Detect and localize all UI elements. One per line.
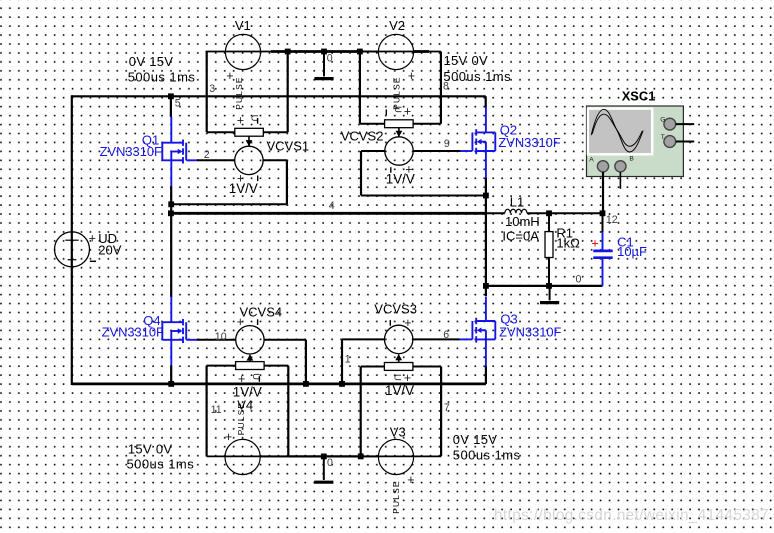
ground bottom (net 0) bbox=[323, 456, 325, 480]
junction R1 bottom / ground bbox=[546, 283, 552, 289]
svg-text:6: 6 bbox=[443, 329, 449, 341]
svg-text:VCVS3: VCVS3 bbox=[374, 301, 417, 316]
transistor Q4 bbox=[170, 297, 172, 323]
wire Q1 drain from node 5 bbox=[170, 96, 172, 117]
VCVS4 output circle bbox=[236, 326, 264, 354]
wire Q1 source / Q4 drain vertical bbox=[170, 186, 172, 297]
wire top rail from UD+ to Q1/Q2 drains bbox=[72, 95, 486, 97]
svg-text:500us 1ms: 500us 1ms bbox=[127, 457, 195, 472]
instrument XSC1 box bbox=[587, 106, 684, 177]
wire V2 left branch down to VCVS2 input bbox=[359, 52, 361, 124]
junction VCVS3 out at rail bbox=[339, 381, 345, 387]
svg-text:+: + bbox=[226, 69, 233, 83]
junction VCVS2 return at Q2 source bbox=[483, 193, 489, 199]
wire V2 right branch down to VCVS2 input right bbox=[440, 52, 442, 124]
VCVS2 output circle bbox=[385, 137, 413, 165]
wire VCVS2 out to Q2 source bbox=[361, 150, 385, 152]
svg-text:+: + bbox=[237, 114, 244, 128]
wire to V2 left pin bbox=[360, 51, 378, 53]
resistor R1 bbox=[548, 213, 550, 231]
transistor Q2 bbox=[485, 107, 487, 132]
wire V1 left branch down to VCVS1 input bbox=[206, 52, 208, 133]
svg-text:10: 10 bbox=[215, 331, 227, 343]
wire net0 from Q2 source midpoint to C1 bottom bbox=[486, 285, 603, 287]
wire Q4 source to rail bbox=[170, 366, 172, 384]
svg-text:+: + bbox=[225, 430, 232, 444]
wire 9: VCVS2 to Q2 gate bbox=[413, 150, 460, 152]
junction V2 left branch bbox=[357, 49, 363, 55]
svg-text:12: 12 bbox=[606, 214, 618, 226]
svg-text:+: + bbox=[407, 473, 414, 487]
wire 2: Q1 gate to VCVS1 bbox=[197, 159, 235, 161]
XSC1 terminal A bbox=[597, 161, 608, 172]
svg-text:+: + bbox=[404, 316, 411, 330]
VCVS2 output marks bbox=[390, 167, 392, 173]
wire VCVS3 input left loop to V3 bbox=[361, 366, 385, 368]
svg-text:XSC1: XSC1 bbox=[622, 88, 656, 103]
svg-text:ZVN3310F: ZVN3310F bbox=[498, 135, 560, 150]
XSC1 waveform B bbox=[592, 114, 642, 146]
svg-text:T: T bbox=[661, 134, 665, 141]
svg-text:9: 9 bbox=[444, 138, 450, 150]
svg-text:https://blog.csdn.net/weixin_4: https://blog.csdn.net/weixin_41445387 bbox=[494, 507, 769, 524]
svg-text:VCVS1: VCVS1 bbox=[267, 139, 310, 154]
svg-text:1kΩ: 1kΩ bbox=[556, 236, 580, 251]
junction VCVS4 out at rail bbox=[303, 381, 309, 387]
wire V2 right pin bbox=[360, 51, 441, 53]
svg-text:7: 7 bbox=[444, 402, 450, 414]
wire mid rail net 4 to L1 bbox=[171, 212, 486, 215]
UD minus mark bbox=[90, 260, 96, 262]
svg-text:ZVN3310F: ZVN3310F bbox=[102, 325, 164, 340]
transistor Q3 bbox=[485, 297, 487, 322]
wire left rail (UD branch) bbox=[71, 95, 73, 385]
junction V3 left branch bbox=[358, 454, 364, 460]
transistor Q1 bbox=[170, 117, 172, 143]
ground top (net 0) bbox=[323, 52, 325, 77]
svg-text:V2: V2 bbox=[389, 18, 405, 33]
DC source UD bbox=[55, 232, 90, 267]
svg-text:4: 4 bbox=[329, 200, 335, 212]
wire Q2 source / Q3 drain vertical bbox=[485, 178, 487, 297]
svg-text:20V: 20V bbox=[98, 242, 121, 257]
junction R1 top bbox=[546, 210, 552, 216]
svg-text:V1: V1 bbox=[235, 18, 251, 33]
VCVS2 sense resistor box bbox=[385, 120, 414, 128]
VCVS1 arrow bbox=[248, 136, 250, 146]
svg-text:10µF: 10µF bbox=[617, 244, 647, 259]
junction V1 right bbox=[285, 49, 291, 55]
svg-text:0: 0 bbox=[327, 53, 333, 65]
wire 10: Q4 gate to VCVS4 bbox=[197, 339, 236, 341]
svg-text:+: + bbox=[237, 315, 244, 329]
wire XSC1 B probe stub bbox=[619, 172, 621, 189]
VCVS4 sense resistor box bbox=[236, 362, 265, 370]
junction ground bottom bbox=[321, 454, 327, 460]
svg-text:+: + bbox=[89, 231, 96, 245]
svg-text:B: B bbox=[629, 156, 634, 163]
svg-text:PULSE: PULSE bbox=[236, 402, 246, 435]
svg-text:+: + bbox=[404, 104, 411, 118]
svg-text:15V 0V: 15V 0V bbox=[444, 53, 488, 68]
wire 6: VCVS3 to Q3 gate bbox=[413, 338, 460, 340]
inductor L1 bbox=[505, 209, 527, 213]
svg-text:500us 1ms: 500us 1ms bbox=[128, 69, 196, 84]
svg-text:3: 3 bbox=[209, 83, 215, 95]
wire VCVS4 input right loop to V4 bbox=[264, 365, 288, 367]
svg-text:1V/V: 1V/V bbox=[229, 181, 258, 196]
wire V1 right pin to node chain bbox=[271, 50, 288, 53]
junction mid rail at Q1/Q4 bbox=[168, 210, 174, 216]
XSC1 G stub wire bbox=[676, 123, 695, 125]
wire Q2 drain drop from top rail bbox=[485, 96, 487, 107]
svg-text:PULSE: PULSE bbox=[234, 76, 244, 109]
svg-text:U: U bbox=[392, 374, 403, 381]
svg-text:ZVN3310F: ZVN3310F bbox=[100, 144, 162, 159]
svg-text:U: U bbox=[392, 106, 403, 113]
wire bottom source rail bbox=[72, 382, 486, 385]
wire VCVS3 input right loop to V3 bbox=[413, 366, 441, 368]
VCVS1 sense resistor box bbox=[235, 128, 263, 136]
svg-text:1: 1 bbox=[345, 353, 351, 365]
XSC1 terminal G bbox=[664, 118, 676, 130]
ground right (net 0) bbox=[549, 286, 551, 301]
XSC1 screen bbox=[588, 109, 652, 155]
svg-text:1V/V: 1V/V bbox=[386, 171, 415, 186]
VCVS3 sense resistor box bbox=[384, 363, 413, 371]
junction node 12 bbox=[600, 210, 606, 216]
pulse source V4 bbox=[225, 439, 260, 474]
wire XSC1 A probe down to node 12 bbox=[602, 172, 604, 213]
svg-text:VCVS4: VCVS4 bbox=[240, 305, 283, 320]
svg-text:11: 11 bbox=[211, 404, 222, 416]
wire VCVS3 out left to bottom rail bbox=[342, 338, 385, 340]
svg-text:L1: L1 bbox=[510, 195, 524, 210]
XSC1 terminal B bbox=[615, 161, 626, 172]
VCVS3 output circle bbox=[385, 325, 413, 353]
wire L1 to R1/node12 bbox=[527, 212, 603, 214]
svg-text:1V/V: 1V/V bbox=[385, 383, 414, 398]
VCVS2 input marks U + bbox=[385, 110, 387, 116]
junction node 5 bbox=[168, 93, 174, 99]
pulse source V2 bbox=[378, 34, 413, 69]
pulse source V3 bbox=[378, 439, 413, 474]
wire V1 right branch down to VCVS1 input right bbox=[287, 52, 289, 133]
capacitor C1 bbox=[602, 213, 604, 232]
svg-text:VCVS2: VCVS2 bbox=[341, 129, 384, 144]
svg-text:G: G bbox=[660, 117, 665, 124]
junction at Q2/Q3 vertical bbox=[483, 283, 489, 289]
svg-text:PULSE: PULSE bbox=[391, 480, 401, 513]
svg-text:0: 0 bbox=[576, 274, 582, 286]
svg-text:500us 1ms: 500us 1ms bbox=[453, 447, 521, 462]
XSC1 waveform A bbox=[591, 109, 643, 152]
junction at top ground bbox=[321, 49, 327, 55]
svg-text:PULSE: PULSE bbox=[392, 76, 402, 109]
svg-text:ZVN3310F: ZVN3310F bbox=[499, 325, 561, 340]
svg-text:15V 0V: 15V 0V bbox=[128, 442, 172, 457]
svg-text:0: 0 bbox=[327, 457, 333, 469]
VCVS1 output circle bbox=[235, 146, 263, 174]
pulse source V1 bbox=[225, 34, 260, 69]
wire V1right junction to ground segment bbox=[288, 50, 324, 53]
svg-text:IC=0A: IC=0A bbox=[502, 229, 539, 244]
wire ground to V2-left junction bbox=[324, 50, 360, 53]
svg-text:0V 15V: 0V 15V bbox=[129, 54, 173, 69]
VCVS4 arrow bbox=[249, 355, 251, 362]
wire VCVS4 input left loop to V4 bbox=[207, 365, 236, 367]
svg-text:500us 1ms: 500us 1ms bbox=[443, 69, 511, 84]
VCVS3 arrow bbox=[398, 355, 400, 363]
wire Q3 source to rail corner bbox=[485, 367, 487, 384]
XSC1 T stub wire bbox=[676, 141, 695, 143]
VCVS3 output marks bbox=[389, 320, 391, 326]
svg-text:+: + bbox=[408, 69, 415, 83]
svg-text:2: 2 bbox=[204, 149, 210, 161]
wire V4 right to ground to V3 left (net 0) bbox=[261, 455, 289, 457]
UD internal plates bbox=[65, 239, 78, 241]
svg-text:0V 15V: 0V 15V bbox=[453, 432, 497, 447]
wire VCVS4 out to bottom rail bbox=[264, 339, 306, 341]
svg-text:V3: V3 bbox=[390, 425, 406, 440]
junction Q4 source at rail bbox=[168, 381, 174, 387]
junction VCVS1 return at Q1 source bbox=[168, 201, 174, 207]
svg-text:10mH: 10mH bbox=[505, 214, 540, 229]
XSC1 terminal T bbox=[664, 136, 676, 148]
svg-text:+: + bbox=[591, 237, 598, 251]
wire VCVS1 out to Q1 source bbox=[263, 159, 287, 161]
VCVS2 arrow bbox=[398, 127, 400, 136]
svg-text:A: A bbox=[589, 157, 594, 164]
wire V1 left pin bbox=[206, 51, 288, 53]
svg-text:5: 5 bbox=[175, 98, 181, 110]
